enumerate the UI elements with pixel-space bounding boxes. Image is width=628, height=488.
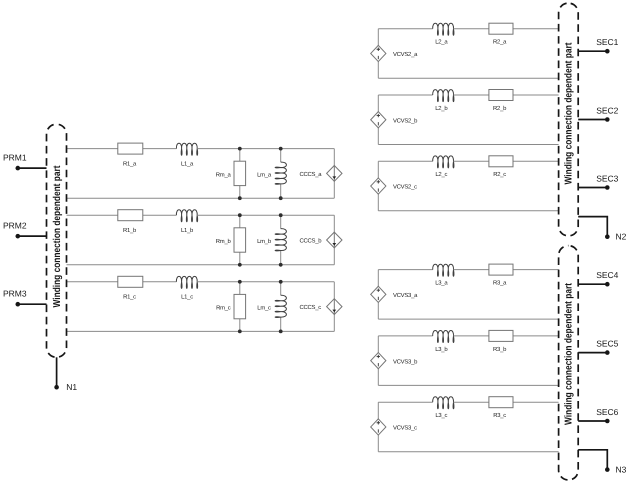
node N2 xyxy=(578,217,626,242)
wire branch3b bottom rail xyxy=(378,384,558,386)
resistor Rm_a xyxy=(216,161,246,185)
wire Rm_a vertical connector xyxy=(239,149,241,199)
label winding connection dependent part (secondary 2) xyxy=(563,42,574,185)
svg-text:VCVS2_b: VCVS2_b xyxy=(393,117,418,124)
voltage source VCVS3_b xyxy=(371,353,418,369)
svg-text:VCVS2_c: VCVS2_c xyxy=(393,184,417,191)
junction Rm_c top xyxy=(238,280,242,284)
svg-text:Winding connection dependent p: Winding connection dependent part xyxy=(563,282,574,425)
svg-text:Rm_b: Rm_b xyxy=(216,238,232,245)
inductor Lm_b xyxy=(257,229,286,251)
svg-text:SEC3: SEC3 xyxy=(596,173,618,183)
svg-text:VCVS3_a: VCVS3_a xyxy=(393,292,418,299)
current source CCCS_b xyxy=(300,232,343,248)
resistor R3_a xyxy=(489,264,513,286)
resistor R1_b xyxy=(118,210,143,234)
junction Lm_c bottom xyxy=(279,330,283,334)
label winding connection dependent part (secondary 3) xyxy=(563,282,574,425)
wire branch3a top rail left segment xyxy=(378,269,432,271)
wire branch1a right vertical xyxy=(333,149,335,199)
wire branch2c top rail left segment xyxy=(378,160,432,162)
inductor Lm_a xyxy=(257,162,286,184)
resistor R1_a xyxy=(118,143,143,167)
node PRM2 xyxy=(3,221,47,239)
inductor L2_b xyxy=(433,90,454,112)
wire branch3b top rail right segment xyxy=(454,335,559,337)
node N3 xyxy=(578,450,626,475)
svg-text:SEC2: SEC2 xyxy=(596,105,618,115)
svg-text:R2_a: R2_a xyxy=(493,39,507,46)
inductor L1_b xyxy=(176,210,197,234)
wire branch3a top rail right segment xyxy=(454,269,559,271)
node SEC5 xyxy=(578,338,618,355)
junction Rm_a bottom xyxy=(238,196,242,200)
svg-text:CCCS_a: CCCS_a xyxy=(300,171,323,178)
svg-text:VCVS3_b: VCVS3_b xyxy=(393,358,418,365)
wire branch1b top rail left segment xyxy=(67,214,177,216)
svg-text:L2_a: L2_a xyxy=(435,39,448,46)
svg-text:L1_c: L1_c xyxy=(181,294,193,301)
winding connection dependent part (secondary 3) dashed box xyxy=(559,246,579,480)
wire branch1c top rail right segment xyxy=(197,281,334,283)
svg-text:Winding connection dependent p: Winding connection dependent part xyxy=(563,42,574,185)
svg-text:L3_c: L3_c xyxy=(435,412,447,419)
resistor R2_b xyxy=(489,90,513,112)
wire branch1a top rail right segment xyxy=(197,148,334,150)
inductor L2_a xyxy=(433,23,454,45)
winding connection dependent part (primary) dashed box xyxy=(47,124,67,357)
svg-text:N2: N2 xyxy=(616,232,627,242)
wire Rm_c vertical connector xyxy=(239,282,241,332)
wire branch2c top rail right segment xyxy=(454,160,559,162)
resistor R2_c xyxy=(489,156,513,178)
svg-text:Rm_c: Rm_c xyxy=(216,305,231,312)
current source CCCS_a xyxy=(300,166,343,182)
junction Lm_c top xyxy=(279,280,283,284)
wire branch1c bottom rail xyxy=(67,330,335,332)
wire branch3a source column xyxy=(377,270,379,320)
wire branch3c top rail right segment xyxy=(454,401,559,403)
node N1 xyxy=(54,357,77,392)
svg-text:R1_c: R1_c xyxy=(123,294,136,301)
wire branch2c source column xyxy=(377,161,379,211)
svg-text:CCCS_c: CCCS_c xyxy=(300,304,322,311)
node SEC4 xyxy=(578,270,618,287)
wire branch1c right vertical xyxy=(333,282,335,332)
wire branch1a bottom rail xyxy=(67,197,335,199)
junction Rm_b top xyxy=(238,213,242,217)
wire branch3c top rail left segment xyxy=(378,401,432,403)
wire branch3c source column xyxy=(377,402,379,452)
svg-text:Lm_b: Lm_b xyxy=(257,238,272,245)
svg-text:Rm_a: Rm_a xyxy=(216,171,232,178)
wire Lm_c vertical connector stubs xyxy=(280,282,282,296)
resistor Rm_b xyxy=(216,228,246,252)
node PRM3 xyxy=(3,289,47,307)
svg-text:L3_a: L3_a xyxy=(435,280,448,287)
wire Rm_b vertical connector xyxy=(239,215,241,265)
svg-text:SEC5: SEC5 xyxy=(596,338,618,348)
svg-text:R3_a: R3_a xyxy=(493,280,507,287)
wire branch2c bottom rail xyxy=(378,210,558,212)
node SEC1 xyxy=(578,37,618,54)
wire branch2a top rail left segment xyxy=(378,28,432,30)
wire branch1b bottom rail xyxy=(67,264,335,266)
svg-text:R2_c: R2_c xyxy=(493,171,506,178)
wire branch3c bottom rail xyxy=(378,451,558,453)
svg-text:SEC1: SEC1 xyxy=(596,37,618,47)
svg-text:VCVS2_a: VCVS2_a xyxy=(393,51,418,58)
node SEC6 xyxy=(578,407,618,424)
svg-text:R2_b: R2_b xyxy=(493,105,507,112)
wire Lm_b vertical connector stubs xyxy=(280,215,282,229)
svg-text:SEC4: SEC4 xyxy=(596,270,618,280)
wire branch1b top rail right segment xyxy=(197,214,334,216)
svg-text:PRM1: PRM1 xyxy=(3,153,27,163)
svg-text:L1_b: L1_b xyxy=(181,227,194,234)
wire branch1a top rail left segment xyxy=(67,148,177,150)
svg-text:L1_a: L1_a xyxy=(181,161,194,168)
svg-text:R1_b: R1_b xyxy=(123,227,137,234)
wire branch2a bottom rail xyxy=(378,77,558,79)
junction Lm_a top xyxy=(279,147,283,151)
inductor L1_c xyxy=(176,276,197,300)
junction Lm_a bottom xyxy=(279,196,283,200)
wire branch2b bottom rail xyxy=(378,144,558,146)
junction Lm_b top xyxy=(279,213,283,217)
wire branch2b source column xyxy=(377,95,379,145)
wire branch3a bottom rail xyxy=(378,318,558,320)
svg-text:L3_b: L3_b xyxy=(435,346,448,353)
current source CCCS_c xyxy=(300,299,343,315)
svg-text:PRM2: PRM2 xyxy=(3,221,27,231)
junction Rm_c bottom xyxy=(238,330,242,334)
winding connection dependent part (secondary 2) dashed box xyxy=(559,3,579,236)
svg-text:N1: N1 xyxy=(66,382,77,392)
voltage source VCVS2_a xyxy=(371,45,418,61)
wire branch2b top rail left segment xyxy=(378,94,432,96)
inductor Lm_c xyxy=(257,295,286,317)
voltage source VCVS3_a xyxy=(371,286,418,302)
node PRM1 xyxy=(3,153,47,171)
junction Rm_b bottom xyxy=(238,263,242,267)
svg-text:SEC6: SEC6 xyxy=(596,407,618,417)
svg-text:Lm_c: Lm_c xyxy=(257,305,271,312)
svg-text:CCCS_b: CCCS_b xyxy=(300,238,323,245)
resistor R2_a xyxy=(489,23,513,45)
voltage source VCVS2_b xyxy=(371,112,418,128)
wire Lm_a vertical connector stubs xyxy=(280,149,282,163)
svg-text:L2_b: L2_b xyxy=(435,105,448,112)
wire branch3b source column xyxy=(377,336,379,386)
wire branch2a source column xyxy=(377,29,379,78)
wire branch1b right vertical xyxy=(333,215,335,265)
wire branch2a top rail right segment xyxy=(454,28,559,30)
svg-text:Lm_a: Lm_a xyxy=(257,171,272,178)
wire branch3b top rail left segment xyxy=(378,335,432,337)
resistor R1_c xyxy=(118,276,143,300)
svg-text:PRM3: PRM3 xyxy=(3,289,27,299)
label winding connection dependent part (primary) xyxy=(52,165,63,308)
inductor L3_a xyxy=(433,264,454,286)
inductor L2_c xyxy=(433,156,454,178)
resistor Rm_c xyxy=(216,294,245,318)
wire branch1c top rail left segment xyxy=(67,281,177,283)
junction Rm_a top xyxy=(238,147,242,151)
node SEC2 xyxy=(578,105,618,121)
svg-text:Winding connection dependent p: Winding connection dependent part xyxy=(52,165,63,308)
junction Lm_b bottom xyxy=(279,263,283,267)
inductor L1_a xyxy=(176,143,197,167)
voltage source VCVS2_c xyxy=(371,178,417,194)
inductor L3_c xyxy=(433,397,454,419)
svg-text:R3_c: R3_c xyxy=(493,412,506,419)
svg-text:R1_a: R1_a xyxy=(123,161,137,168)
wire branch2b top rail right segment xyxy=(454,94,559,96)
resistor R3_c xyxy=(489,397,513,419)
svg-text:L2_c: L2_c xyxy=(435,171,447,178)
svg-text:VCVS3_c: VCVS3_c xyxy=(393,425,417,432)
inductor L3_b xyxy=(433,331,454,353)
svg-text:R3_b: R3_b xyxy=(493,346,507,353)
node SEC3 xyxy=(578,173,618,190)
svg-text:N3: N3 xyxy=(616,464,627,474)
resistor R3_b xyxy=(489,330,513,352)
voltage source VCVS3_c xyxy=(371,419,417,435)
